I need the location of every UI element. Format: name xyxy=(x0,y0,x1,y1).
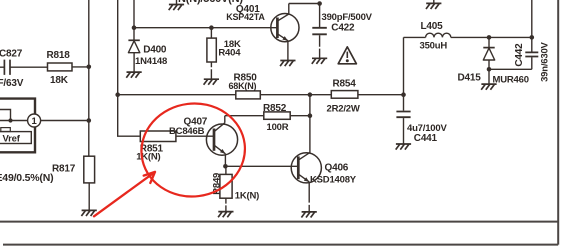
junction net-A / pin1 wire xyxy=(87,118,92,123)
wire pin1 to net-A xyxy=(41,120,89,122)
svg-text:350uH: 350uH xyxy=(420,41,448,52)
svg-text:KSD1408Y: KSD1408Y xyxy=(310,174,357,185)
transistor Q401 KSP42TA xyxy=(226,4,299,61)
capacitor C441 4u7/100V xyxy=(396,95,447,145)
inductor L405 350uH xyxy=(404,21,451,51)
junction net-B / R850 run xyxy=(115,92,120,97)
capacitor C442 39n/630V xyxy=(514,37,551,82)
capacitor C827 xyxy=(0,49,48,90)
diode D415 MUR460 xyxy=(458,37,529,85)
junction IC internal xyxy=(8,118,12,122)
resistor R817 xyxy=(52,156,95,210)
resistor R849 1K(N) xyxy=(212,166,260,211)
warning triangle xyxy=(338,47,356,64)
wire D415 to C442 bottom xyxy=(489,68,532,70)
junction net-C / R852 xyxy=(308,113,313,118)
svg-text:39n/630V: 39n/630V xyxy=(539,41,550,81)
transistor Q407 BC846B xyxy=(169,116,238,167)
ground top-right floating xyxy=(433,0,435,3)
svg-text:C441: C441 xyxy=(414,133,438,144)
svg-text:C827: C827 xyxy=(0,49,23,60)
wire Q407 emitter to Q406 base xyxy=(225,165,298,167)
resistor R854 2R2/2W xyxy=(310,79,404,115)
svg-text:R404: R404 xyxy=(218,47,241,58)
red arrow annotation xyxy=(94,172,155,216)
junction Q407 emitter node xyxy=(223,164,228,169)
junction D415 top xyxy=(487,35,492,40)
capacitor C422 390pF/500V xyxy=(312,4,372,59)
wire vertical net-B x=118 with bend to R851 xyxy=(118,0,141,136)
svg-text:1K(N): 1K(N) xyxy=(136,151,160,162)
svg-text:Q406: Q406 xyxy=(325,162,349,173)
wire L405 to C442 node xyxy=(451,36,532,38)
svg-text:R818: R818 xyxy=(47,50,71,61)
svg-text:KSP42TA: KSP42TA xyxy=(226,12,265,22)
red ellipse annotation around Q407 xyxy=(136,98,250,203)
ground R404 xyxy=(204,79,219,85)
svg-text:Vref: Vref xyxy=(3,133,21,144)
ground D415 xyxy=(488,69,490,84)
ground Q406 emitter xyxy=(301,212,316,218)
junction net-C top xyxy=(308,92,313,97)
svg-text:1: 1 xyxy=(32,116,38,127)
ground D400 xyxy=(126,72,141,78)
svg-text:L405: L405 xyxy=(421,21,444,32)
ground C422 xyxy=(312,58,327,64)
wire vertical net-A x=89 xyxy=(88,0,90,156)
resistor R818 value 18K xyxy=(47,50,89,86)
junction net-D at R854 right xyxy=(401,92,406,97)
ground top-left floating xyxy=(176,0,178,4)
wire net-C vertical (Q406 collector) xyxy=(309,95,311,153)
svg-text:E49/0.5%(N): E49/0.5%(N) xyxy=(0,172,53,184)
junction net-A / R818 xyxy=(87,65,92,70)
wire R850 run from net-B xyxy=(118,94,236,96)
svg-text:1K(N): 1K(N) xyxy=(235,190,259,201)
svg-text:C422: C422 xyxy=(331,22,355,33)
svg-text:100R: 100R xyxy=(267,122,289,133)
diode D400 1N4148 xyxy=(128,40,167,71)
wire net-E vertical to top xyxy=(531,0,533,37)
wire IC internal to pin 1 xyxy=(0,120,28,122)
resistor R850 68K(N) xyxy=(229,73,310,99)
svg-text:18K: 18K xyxy=(50,75,69,86)
svg-text:R854: R854 xyxy=(333,79,357,90)
pin 1 bubble xyxy=(28,114,41,127)
ground C441 xyxy=(396,144,411,150)
wire net-D vertical xyxy=(403,37,405,94)
svg-text:R817: R817 xyxy=(52,164,76,175)
ground R849 xyxy=(218,212,233,218)
svg-text:68K(N): 68K(N) xyxy=(229,81,257,91)
wire Q401 base run xyxy=(134,27,277,29)
junction R404 tap xyxy=(209,25,214,30)
svg-text:C442: C442 xyxy=(514,43,525,67)
resistor R851 1K(N) xyxy=(136,131,214,162)
svg-text:F/63V: F/63V xyxy=(0,78,24,89)
svg-text:N(N)/560V(N): N(N)/560V(N) xyxy=(178,0,243,5)
svg-text:1N4148: 1N4148 xyxy=(135,56,167,67)
resistor R852 100R xyxy=(225,103,310,133)
svg-text:R852: R852 xyxy=(263,103,287,114)
IC box (regulator, clipped at left) xyxy=(0,99,35,153)
junction D415 bottom xyxy=(487,67,492,72)
svg-text:D415: D415 xyxy=(458,73,482,84)
wire IC internal upper xyxy=(0,110,11,121)
svg-text:MUR460: MUR460 xyxy=(493,74,529,85)
svg-text:D400: D400 xyxy=(143,44,167,55)
junction C422 top xyxy=(317,1,322,6)
wire D400 net vertical xyxy=(133,0,135,40)
Vref box xyxy=(0,128,31,145)
transistor Q406 KSD1408Y xyxy=(291,153,357,212)
ground R817 xyxy=(81,210,96,216)
wire Q401 collector top xyxy=(289,3,320,5)
svg-text:BC846B: BC846B xyxy=(169,126,205,137)
junction C442 top xyxy=(530,35,535,40)
svg-text:2R2/2W: 2R2/2W xyxy=(327,103,360,114)
resistor R404 value 18K xyxy=(207,28,241,79)
junction D400 / base wire xyxy=(132,25,137,30)
ground Q401 emitter xyxy=(280,61,295,67)
